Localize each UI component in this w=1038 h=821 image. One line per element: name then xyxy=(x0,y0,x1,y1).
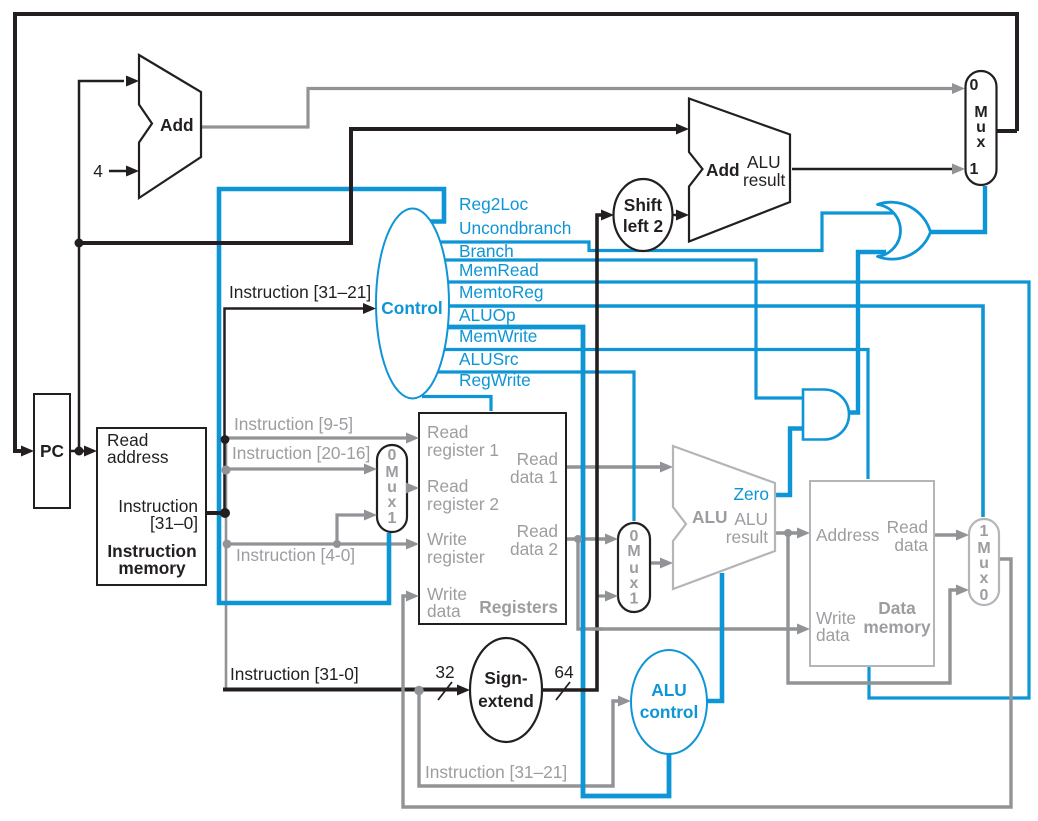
mux top (branch select) xyxy=(966,71,997,185)
junction node: instruction bus xyxy=(220,508,230,518)
wire: Instruction [20-16] to left mux input 0 xyxy=(226,467,366,470)
wire: Instruction [9-5] to Read register 1 xyxy=(226,436,408,439)
arrowhead into top mux input 0 xyxy=(952,83,965,94)
arrowhead into ALU top input xyxy=(660,462,673,473)
arrowhead into left mux input 0 xyxy=(364,464,377,475)
wire: PC output to Instruction memory Read address xyxy=(70,450,86,453)
svg-text:Branch: Branch xyxy=(459,241,514,261)
wire: Branch from Control to AND gate top input xyxy=(441,260,802,398)
svg-text:[31–0]: [31–0] xyxy=(150,513,198,533)
svg-text:Shift: Shift xyxy=(624,195,663,215)
svg-text:1: 1 xyxy=(980,523,989,540)
svg-text:Add: Add xyxy=(160,115,194,135)
svg-text:left 2: left 2 xyxy=(623,216,663,236)
svg-text:Zero: Zero xyxy=(733,484,769,504)
wire: Instruction [31-0] into Sign-extend xyxy=(223,688,458,692)
junction node: Instruction [9-5] tap xyxy=(221,435,230,444)
Registers box xyxy=(419,413,566,624)
svg-text:result: result xyxy=(726,527,768,547)
svg-text:register: register xyxy=(427,547,485,567)
arrowhead into Read register 2 (left mux output) xyxy=(406,483,419,494)
svg-text:ALU: ALU xyxy=(734,509,768,529)
wire: PC+4 adder output to top mux input 0 xyxy=(201,89,954,128)
junction node: PC output xyxy=(75,447,84,456)
svg-text:memory: memory xyxy=(863,617,931,637)
arrowhead into ALUSrc mux input 0 xyxy=(605,534,618,545)
svg-text:register 1: register 1 xyxy=(427,440,499,460)
arrowhead into Control xyxy=(363,303,376,314)
arrowhead into PC xyxy=(21,446,34,457)
svg-text:ALUOp: ALUOp xyxy=(459,305,516,325)
arrowhead into branch adder bottom xyxy=(676,210,689,221)
Instruction memory box xyxy=(97,428,206,585)
svg-text:Uncondbranch: Uncondbranch xyxy=(459,218,571,238)
svg-text:MemRead: MemRead xyxy=(459,260,539,280)
arrowhead into Read address xyxy=(84,446,97,457)
arrowhead of constant 4 xyxy=(126,166,139,177)
svg-text:Instruction [20-16]: Instruction [20-16] xyxy=(232,443,370,463)
wire: PC feedback from top mux along top and left down to PC xyxy=(15,14,1017,451)
svg-text:result: result xyxy=(743,170,785,190)
junction node: Read data 2 xyxy=(574,535,582,543)
svg-text:0: 0 xyxy=(980,587,989,604)
wire: top mux output xyxy=(996,129,1017,133)
arrowhead into PC+4 adder top xyxy=(126,76,139,87)
Control oval xyxy=(376,209,449,399)
arrowhead into result mux input 0 xyxy=(956,585,969,596)
svg-text:x: x xyxy=(388,494,397,511)
svg-text:PC: PC xyxy=(40,441,64,461)
wire: instruction bus gray riser through taps xyxy=(225,438,228,688)
svg-text:Add: Add xyxy=(706,160,740,180)
ALU control oval xyxy=(631,650,707,754)
wire: OR gate output to top mux select xyxy=(929,186,985,232)
svg-text:Read: Read xyxy=(887,517,928,537)
svg-text:ALU: ALU xyxy=(651,680,687,700)
AND gate xyxy=(803,390,849,440)
wire: ALU result loop to result mux input 0 xyxy=(788,533,958,683)
junction node: Instruction [20-16] tap xyxy=(221,465,230,474)
wire: constant 4 into PC+4 adder xyxy=(109,170,126,173)
wire: MemRead from Control around right side to Data memory bottom xyxy=(444,282,1029,698)
wire: Read data 2 to ALUSrc mux input 0 xyxy=(566,537,606,540)
arrowhead into result mux input 1 xyxy=(956,530,969,541)
junction node: ALU result xyxy=(784,529,792,537)
svg-text:extend: extend xyxy=(478,691,534,711)
arrowhead into branch adder top xyxy=(676,124,689,135)
svg-text:control: control xyxy=(640,702,699,722)
Sign-extend oval xyxy=(470,638,542,742)
svg-text:0: 0 xyxy=(970,77,979,94)
svg-text:Instruction [31–21]: Instruction [31–21] xyxy=(229,282,371,302)
wire: Sign-extend output up to Shift left 2 xyxy=(542,215,601,690)
svg-text:Reg2Loc: Reg2Loc xyxy=(459,194,529,214)
svg-text:data: data xyxy=(816,625,850,645)
svg-text:Write: Write xyxy=(427,529,467,549)
svg-text:register 2: register 2 xyxy=(427,494,499,514)
adder Add (branch target) xyxy=(689,99,790,242)
wire: branch adder output to top mux input 1 xyxy=(792,168,954,171)
svg-text:32: 32 xyxy=(435,662,454,682)
wire: write-data segment over instruction riser xyxy=(592,627,603,630)
junction node: PC value to adders xyxy=(75,239,84,248)
svg-text:Control: Control xyxy=(381,298,442,318)
wire: Instruction [4-0] to Write register xyxy=(227,542,408,545)
svg-text:Read: Read xyxy=(427,422,468,442)
wire: instruction bus riser to Instruction [31-21] control xyxy=(225,309,365,514)
wire: result mux output write-back loop to Registers Write data xyxy=(403,559,1011,807)
svg-text:x: x xyxy=(980,570,989,587)
svg-text:Instruction [31–21]: Instruction [31–21] xyxy=(425,762,567,782)
wire: ALU result to Data memory Address xyxy=(775,531,799,534)
arrowhead into ALUSrc mux input 1 xyxy=(605,591,618,602)
svg-text:data 1: data 1 xyxy=(510,467,558,487)
wire: ALU control output to ALU bottom xyxy=(705,573,722,701)
svg-text:4: 4 xyxy=(93,161,103,181)
svg-text:M: M xyxy=(627,543,640,560)
arrowhead into Registers Write data xyxy=(406,591,419,602)
svg-text:ALUSrc: ALUSrc xyxy=(459,349,519,369)
svg-text:64: 64 xyxy=(554,662,574,682)
wire: sign-extend tap to ALUSrc mux input 1 xyxy=(597,594,606,597)
wire: PC value to branch adder top input xyxy=(79,129,677,243)
wire: ALUSrc mux output to ALU bottom input xyxy=(650,561,662,564)
svg-text:0: 0 xyxy=(388,447,397,464)
wire: Reg2Loc from Control to left mux select xyxy=(219,189,444,603)
svg-text:data: data xyxy=(894,535,928,555)
wire: MemWrite from Control to Data memory top xyxy=(440,350,868,480)
svg-text:RegWrite: RegWrite xyxy=(459,370,531,390)
svg-text:Instruction [4-0]: Instruction [4-0] xyxy=(236,545,355,565)
svg-text:1: 1 xyxy=(970,161,979,178)
svg-text:data: data xyxy=(427,601,461,621)
svg-text:Instruction [31-0]: Instruction [31-0] xyxy=(230,664,359,684)
slash 64 xyxy=(556,682,570,700)
svg-text:ALU: ALU xyxy=(692,507,728,527)
svg-text:address: address xyxy=(107,447,169,467)
wire: AND gate output up to OR gate bottom input xyxy=(848,252,886,413)
arrowhead into Data memory Address xyxy=(797,528,810,539)
Data memory box xyxy=(810,481,934,666)
wire: Instruction [31-21] tap down to ALU control xyxy=(419,690,620,786)
arrowhead into Read register 1 xyxy=(406,433,419,444)
svg-text:Read: Read xyxy=(427,476,468,496)
OR gate xyxy=(878,202,931,259)
arrowhead into Data memory Write data xyxy=(797,624,810,635)
svg-text:Address: Address xyxy=(816,525,880,545)
svg-text:Read: Read xyxy=(517,449,558,469)
arrowhead into left mux input 1 xyxy=(364,510,377,521)
svg-text:x: x xyxy=(630,575,639,592)
arrowhead into top mux input 1 xyxy=(952,164,965,175)
svg-text:data 2: data 2 xyxy=(510,539,558,559)
svg-text:Sign-: Sign- xyxy=(484,668,527,688)
ALU main xyxy=(673,446,775,589)
svg-text:x: x xyxy=(977,134,986,151)
junction node: Instruction [4-0] to mux 1 xyxy=(333,540,341,548)
junction node: Instruction [4-0] tap xyxy=(223,540,232,549)
mux middle (ALUSrc select) xyxy=(618,523,650,612)
slash 32 xyxy=(438,682,452,700)
arrowhead into ALU bottom input xyxy=(660,558,673,569)
wire: MemtoReg from Control to result mux select xyxy=(445,306,983,517)
wire: instruction memory output stub xyxy=(206,511,226,515)
svg-text:1: 1 xyxy=(630,591,639,608)
svg-text:Data: Data xyxy=(878,598,916,618)
wire: PC value up to PC+4 adder top input xyxy=(79,81,124,451)
svg-text:MemtoReg: MemtoReg xyxy=(459,282,544,302)
wire: Zero output from ALU to AND gate bottom input xyxy=(775,429,802,496)
mux right (MemtoReg select) xyxy=(969,519,999,605)
PC register box xyxy=(34,394,70,508)
wire: Read data 1 to ALU top input xyxy=(566,465,661,468)
arrowhead into Write register xyxy=(406,539,419,550)
wire: Shift left 2 output to branch adder bottom input xyxy=(672,214,677,217)
wire: Read data 2 branch down to Data memory Write data xyxy=(578,539,799,629)
wire: Uncondbranch from Control to OR gate top input xyxy=(438,213,893,251)
wire: ALUSrc from Control to ALUSrc mux select xyxy=(434,372,634,521)
junction node: sign-extend input tap xyxy=(414,686,423,695)
svg-text:Registers: Registers xyxy=(479,597,558,617)
svg-text:memory: memory xyxy=(118,558,186,578)
svg-text:1: 1 xyxy=(388,510,397,527)
wire: Instruction [4-0] branch to left mux input 1 xyxy=(337,515,366,544)
wire: left mux output to Read register 2 xyxy=(407,486,410,489)
wire: ALUOp from Control down to ALU control input xyxy=(444,327,669,796)
Shift left 2 oval xyxy=(614,179,673,251)
svg-text:ALU: ALU xyxy=(747,152,781,172)
svg-text:Read: Read xyxy=(517,521,558,541)
wire: Data memory Read data to result mux input 1 xyxy=(934,533,958,536)
wire: RegWrite from Control to Registers top xyxy=(422,397,491,412)
svg-text:Instruction [9-5]: Instruction [9-5] xyxy=(234,414,353,434)
arrowhead into ALU control xyxy=(618,696,631,707)
svg-text:MemWrite: MemWrite xyxy=(459,326,537,346)
mux left (Reg2Loc write register select) xyxy=(377,445,407,532)
arrowhead into Sign-extend xyxy=(457,685,470,696)
adder Add (PC+4) xyxy=(139,55,201,198)
arrowhead into Shift left 2 xyxy=(601,210,614,221)
